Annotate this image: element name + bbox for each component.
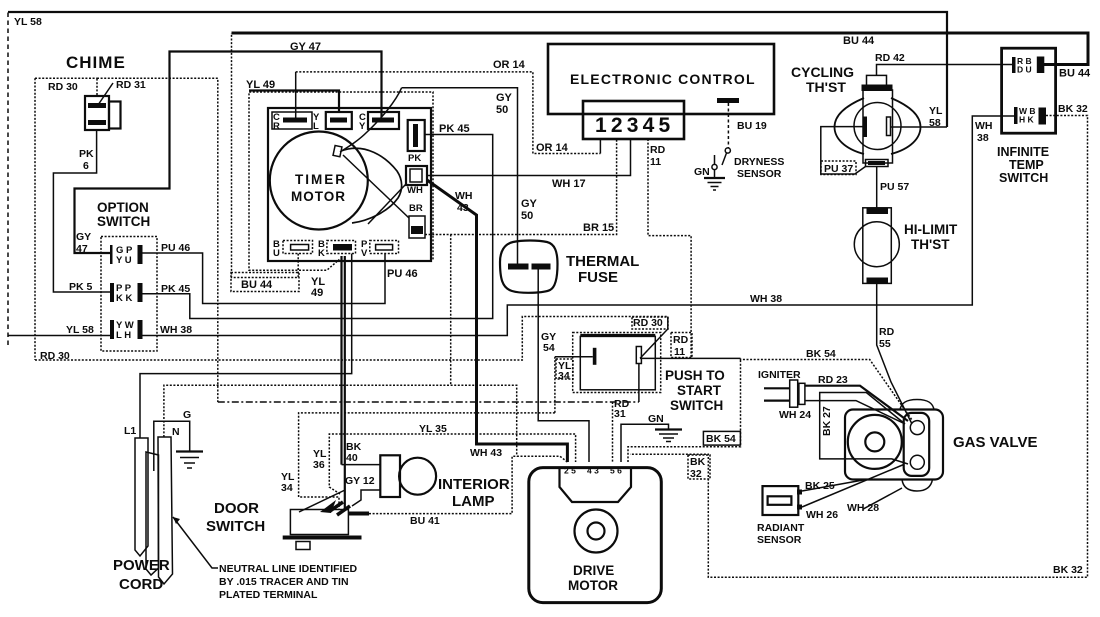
svg-text:GY 12: GY 12 xyxy=(345,475,375,487)
svg-text:34: 34 xyxy=(281,482,293,494)
svg-text:K K: K K xyxy=(116,293,133,304)
wire RD31 from chime xyxy=(96,78,98,95)
timer motor circle xyxy=(270,132,368,230)
svg-text:PUSH TO: PUSH TO xyxy=(665,368,725,383)
power cord blades xyxy=(135,437,173,584)
svg-text:11: 11 xyxy=(674,346,685,358)
svg-text:50: 50 xyxy=(521,210,533,222)
wire YL34 door loop xyxy=(299,413,555,509)
svg-text:DRYNESS: DRYNESS xyxy=(734,156,784,168)
svg-text:47: 47 xyxy=(76,243,88,255)
timer terminal B/U xyxy=(273,239,313,259)
svg-text:RADIANT: RADIANT xyxy=(757,522,805,534)
svg-text:54: 54 xyxy=(543,342,555,354)
svg-text:32: 32 xyxy=(690,468,702,480)
svg-text:INFINITE: INFINITE xyxy=(997,145,1049,159)
wire RD11 from EC 4 xyxy=(648,139,691,358)
ground at dryness sensor xyxy=(704,170,725,191)
svg-text:BK 27: BK 27 xyxy=(821,406,833,436)
wire PK6 chime to option switch xyxy=(53,130,110,292)
svg-text:K: K xyxy=(318,248,325,259)
wire YL34 into push-to-start xyxy=(555,356,593,358)
wire BK25 xyxy=(802,480,866,492)
svg-text:YL 58: YL 58 xyxy=(14,16,42,28)
wire BK27 loop xyxy=(820,393,908,465)
svg-text:11: 11 xyxy=(650,156,661,168)
svg-text:6: 6 xyxy=(83,160,89,172)
svg-text:ELECTRONIC CONTROL: ELECTRONIC CONTROL xyxy=(570,71,756,87)
timer belt curves xyxy=(341,148,402,223)
svg-text:RD 42: RD 42 xyxy=(875,52,905,64)
svg-text:BR: BR xyxy=(409,203,423,214)
timer terminal C/Y xyxy=(359,112,399,132)
wire RD55 hi-limit to gas valve xyxy=(877,283,912,424)
ground at power cord xyxy=(176,452,203,469)
gas valve body xyxy=(845,400,943,492)
svg-text:YL: YL xyxy=(929,105,943,117)
svg-text:OR 14: OR 14 xyxy=(536,142,569,154)
option switch xyxy=(97,200,157,351)
svg-text:V: V xyxy=(361,248,368,259)
interior lamp xyxy=(380,455,436,497)
svg-text:YL 35: YL 35 xyxy=(419,423,447,435)
svg-text:GY: GY xyxy=(496,92,513,104)
push to start switch xyxy=(573,333,661,393)
wire RD30 bus xyxy=(35,317,668,361)
svg-text:L: L xyxy=(313,121,319,132)
svg-text:GAS VALVE: GAS VALVE xyxy=(953,434,1037,451)
timer terminal B/K xyxy=(318,239,356,259)
svg-text:START: START xyxy=(677,383,722,398)
svg-text:N: N xyxy=(172,426,180,438)
wire BU44 top bus xyxy=(232,33,1089,65)
wire WH38 from option xyxy=(141,116,1016,336)
node YL34 label boxed xyxy=(556,359,573,382)
svg-text:RD 31: RD 31 xyxy=(116,79,146,91)
svg-text:MOTOR: MOTOR xyxy=(568,578,618,593)
svg-text:WH 28: WH 28 xyxy=(847,502,879,514)
wire RD11/BK54 horizontal xyxy=(640,357,741,359)
svg-text:CORD: CORD xyxy=(119,576,163,593)
wire YL35 door to drive motor xyxy=(329,434,575,494)
svg-text:43: 43 xyxy=(457,202,469,214)
wire RD31 from push-to-start xyxy=(638,364,640,403)
svg-text:RD: RD xyxy=(650,144,666,156)
svg-text:BK 32: BK 32 xyxy=(1058,103,1088,115)
timer terminal PK xyxy=(408,120,425,164)
wire leader note to power cord xyxy=(173,517,218,568)
svg-text:FUSE: FUSE xyxy=(578,269,618,286)
wire RD31 to drive motor xyxy=(612,402,614,462)
igniter xyxy=(764,380,805,407)
svg-text:YL 49: YL 49 xyxy=(246,79,275,91)
svg-text:PK: PK xyxy=(408,153,421,164)
svg-text:TH'ST: TH'ST xyxy=(911,237,950,252)
svg-text:WH 43: WH 43 xyxy=(470,447,502,459)
svg-text:Y: Y xyxy=(359,121,366,132)
svg-text:38: 38 xyxy=(977,132,989,144)
svg-text:TEMP: TEMP xyxy=(1009,158,1044,172)
svg-text:31: 31 xyxy=(614,408,626,420)
svg-text:DOOR: DOOR xyxy=(214,500,259,517)
svg-text:RD: RD xyxy=(673,334,689,346)
hi-limit thermostat xyxy=(854,208,899,284)
wire WH17 timer WH to EC 3 xyxy=(427,139,631,176)
svg-text:SWITCH: SWITCH xyxy=(97,214,150,229)
svg-text:BU 41: BU 41 xyxy=(410,515,440,527)
svg-text:SENSOR: SENSOR xyxy=(737,168,782,180)
svg-text:THERMAL: THERMAL xyxy=(566,253,639,270)
svg-text:NEUTRAL LINE IDENTIFIED: NEUTRAL LINE IDENTIFIED xyxy=(219,563,357,575)
svg-text:SWITCH: SWITCH xyxy=(206,518,265,535)
svg-text:BU 44: BU 44 xyxy=(843,35,875,47)
thermal fuse xyxy=(500,241,558,293)
svg-text:WH: WH xyxy=(407,185,423,196)
svg-text:GN: GN xyxy=(694,166,710,178)
wire PU57 cycling to hi-limit xyxy=(876,167,878,209)
infinite temp switch contact WH/BK xyxy=(1014,106,1046,125)
wire WH28 xyxy=(863,488,902,509)
wire RD42 cycling to infinite temp switch xyxy=(877,65,1015,76)
wire RD23 xyxy=(805,386,908,421)
svg-text:PU 46: PU 46 xyxy=(387,268,418,280)
wire BK54 from drive motor xyxy=(628,358,912,462)
svg-text:PK 5: PK 5 xyxy=(69,281,93,293)
svg-text:BK 25: BK 25 xyxy=(805,480,835,492)
door switch xyxy=(283,490,369,550)
wire RD31 dash-dot bus xyxy=(218,401,639,403)
svg-text:55: 55 xyxy=(879,338,891,350)
wire GY54 thermal fuse to drive motor xyxy=(538,270,589,463)
svg-text:H K: H K xyxy=(1019,115,1035,125)
svg-text:BK 54: BK 54 xyxy=(706,433,736,445)
svg-text:PU 37: PU 37 xyxy=(824,163,853,175)
wire BR15 timer BR to EC 2 xyxy=(425,139,617,235)
svg-text:OPTION: OPTION xyxy=(97,200,149,215)
svg-text:U: U xyxy=(273,248,280,259)
option switch contact GY/PU xyxy=(110,245,143,266)
svg-text:49: 49 xyxy=(311,287,323,299)
svg-text:50: 50 xyxy=(496,104,508,116)
option switch contact YL/WH xyxy=(110,320,143,341)
svg-text:BK 32: BK 32 xyxy=(1053,564,1083,576)
svg-text:5 6: 5 6 xyxy=(610,466,622,476)
svg-text:36: 36 xyxy=(313,459,325,471)
svg-text:SENSOR: SENSOR xyxy=(757,534,802,546)
wire GY47 xyxy=(75,52,382,254)
wire BU44 riser from timer xyxy=(232,33,299,278)
svg-text:YL 58: YL 58 xyxy=(66,324,94,336)
svg-text:MOTOR: MOTOR xyxy=(291,189,346,204)
svg-text:INTERIOR: INTERIOR xyxy=(438,476,510,493)
svg-text:34: 34 xyxy=(558,370,570,382)
radiant sensor xyxy=(763,486,803,515)
svg-text:WH 26: WH 26 xyxy=(806,509,838,521)
electronic control box xyxy=(548,44,774,114)
node BK32 label at drive motor xyxy=(688,455,710,480)
svg-text:Y U: Y U xyxy=(116,255,132,266)
svg-text:BR 15: BR 15 xyxy=(583,222,614,234)
timer outer dotted box YL49 harness xyxy=(249,92,433,270)
svg-text:BU 19: BU 19 xyxy=(737,120,767,132)
wire L1 power cord xyxy=(140,254,352,438)
svg-text:L1: L1 xyxy=(124,425,136,437)
svg-text:POWER: POWER xyxy=(113,557,170,574)
svg-text:CYCLING: CYCLING xyxy=(791,64,854,80)
svg-text:PU 46: PU 46 xyxy=(161,242,190,254)
svg-text:HI-LIMIT: HI-LIMIT xyxy=(904,222,958,237)
wire PU37 cycling left contact xyxy=(821,127,866,174)
wire WH24 xyxy=(805,401,903,423)
timer motor box xyxy=(268,108,431,261)
svg-text:12345: 12345 xyxy=(595,114,674,137)
infinite temp switch xyxy=(997,48,1056,185)
svg-text:BU 44: BU 44 xyxy=(241,279,273,291)
svg-text:WH: WH xyxy=(455,190,473,202)
svg-text:SWITCH: SWITCH xyxy=(670,398,723,413)
wire YL49 top to Y/L terminal xyxy=(249,91,339,114)
wire GY12 lamp to door switch xyxy=(352,490,380,506)
electronic control terminal box 1 2 3 4 5 xyxy=(583,101,684,139)
svg-text:4 3: 4 3 xyxy=(587,466,599,476)
svg-text:RD: RD xyxy=(879,326,895,338)
svg-text:WH 38: WH 38 xyxy=(160,324,192,336)
wire YL58 into cycling right contact xyxy=(891,126,948,128)
ground at drive motor xyxy=(655,430,682,442)
svg-text:RD 23: RD 23 xyxy=(818,374,848,386)
wire WH26 xyxy=(802,465,904,508)
dryness sensor contact bar in EC xyxy=(717,98,739,103)
wire BU19 dashed to dryness sensor xyxy=(727,103,729,148)
wire GY50 from timer belt to thermal fuse xyxy=(340,88,402,152)
wire YL58 to option switch xyxy=(8,335,111,337)
chime xyxy=(66,53,126,130)
wire YL58 outer border xyxy=(7,12,9,345)
svg-text:PK 45: PK 45 xyxy=(439,123,470,135)
svg-text:R: R xyxy=(273,121,280,132)
svg-text:OR 14: OR 14 xyxy=(493,59,526,71)
svg-text:IGNITER: IGNITER xyxy=(758,369,801,381)
svg-text:WH 24: WH 24 xyxy=(779,409,811,421)
timer terminal C/R xyxy=(272,112,312,132)
option switch contact PK/PK xyxy=(110,283,143,304)
svg-text:TH'ST: TH'ST xyxy=(806,79,846,95)
wire BU41 xyxy=(369,456,567,513)
svg-text:WH 38: WH 38 xyxy=(750,293,782,305)
svg-text:RD 30: RD 30 xyxy=(48,81,78,93)
timer terminal Y/L xyxy=(313,112,352,132)
infinite temp switch contact BR-RD/BU xyxy=(1012,56,1044,75)
svg-text:PK 45: PK 45 xyxy=(161,283,190,295)
timer terminal WH xyxy=(406,166,427,196)
svg-text:DRIVE: DRIVE xyxy=(573,563,614,578)
svg-text:GY: GY xyxy=(521,198,538,210)
svg-text:L H: L H xyxy=(116,330,131,341)
cycling thermostat xyxy=(791,64,921,167)
svg-text:GY: GY xyxy=(76,231,91,243)
svg-text:GY 47: GY 47 xyxy=(290,41,321,53)
svg-text:G: G xyxy=(183,409,191,421)
svg-text:PK: PK xyxy=(79,148,94,160)
svg-text:CHIME: CHIME xyxy=(66,53,126,72)
svg-text:PU 57: PU 57 xyxy=(880,181,909,193)
svg-text:WH: WH xyxy=(975,120,993,132)
dryness sensor switch xyxy=(712,148,731,170)
svg-text:2 5: 2 5 xyxy=(564,466,576,476)
wire GN from drive motor xyxy=(621,424,669,462)
timer terminal P/V xyxy=(361,239,399,259)
svg-text:58: 58 xyxy=(929,117,941,129)
svg-text:40: 40 xyxy=(346,452,358,464)
wire BR15/neutral vertical xyxy=(450,235,452,386)
wire RD30 from chime xyxy=(35,77,97,79)
timer belt pulley xyxy=(333,145,342,156)
svg-text:BK 54: BK 54 xyxy=(806,348,836,360)
wire WH43 thick from timer WH xyxy=(427,180,567,462)
drive motor xyxy=(529,466,662,603)
wire G power cord to ground xyxy=(154,421,190,471)
svg-text:PLATED TERMINAL: PLATED TERMINAL xyxy=(219,589,318,601)
svg-text:GN: GN xyxy=(648,413,664,425)
svg-text:TIMER: TIMER xyxy=(295,172,347,187)
svg-text:BU 44: BU 44 xyxy=(1059,68,1091,80)
wire N power cord xyxy=(164,385,517,456)
wire PK45 from option xyxy=(141,135,493,319)
svg-text:LAMP: LAMP xyxy=(452,493,495,510)
svg-text:RD 30: RD 30 xyxy=(633,317,663,329)
wire BK32 from infinite temp switch xyxy=(630,116,1088,578)
wire leader RD31 to chime xyxy=(98,83,113,105)
svg-text:BK: BK xyxy=(690,456,706,468)
svg-text:WH 17: WH 17 xyxy=(552,178,586,190)
wire OR14 top (timer C/R to EC 1) xyxy=(295,72,297,119)
wire PU46 from option xyxy=(141,253,385,304)
wire B/K risers xyxy=(340,256,342,465)
timer terminal BR xyxy=(409,203,425,238)
wire BK40 to lamp xyxy=(342,464,381,466)
node BK54 label boxed xyxy=(703,431,740,445)
node RD11 label at push-to-start xyxy=(671,333,692,359)
svg-text:SWITCH: SWITCH xyxy=(999,171,1048,185)
svg-text:BY .015 TRACER AND TIN: BY .015 TRACER AND TIN xyxy=(219,576,349,588)
svg-text:D U: D U xyxy=(1017,65,1032,75)
